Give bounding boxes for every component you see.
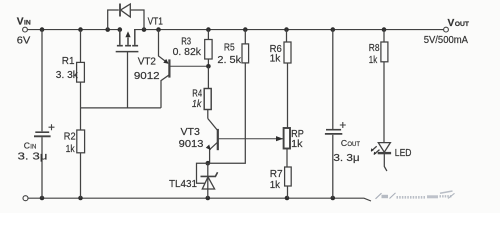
resistor R6	[284, 30, 291, 128]
resistor R3	[205, 30, 212, 67]
resistor R7	[285, 167, 292, 198]
svg-text:1k: 1k	[66, 144, 76, 155]
svg-text:R2: R2	[64, 132, 76, 143]
svg-text:1k: 1k	[192, 99, 202, 110]
svg-text:OUT: OUT	[347, 142, 360, 148]
transistor VT1 (MOSFET)	[116, 30, 139, 108]
node dot diode right	[142, 27, 147, 32]
wire bottom rail	[28, 198, 371, 201]
svg-text:VT3: VT3	[181, 127, 201, 138]
svg-text:VT2: VT2	[138, 57, 157, 68]
capacitor Cin	[34, 30, 55, 198]
node dot R3 top	[206, 27, 211, 32]
node dot R7 bottom	[285, 196, 290, 201]
capacitor Cout	[325, 30, 346, 198]
node dot VT1 drain	[118, 27, 123, 32]
svg-text:V: V	[17, 16, 24, 27]
svg-text:R5: R5	[224, 43, 235, 54]
svg-text:R1: R1	[62, 56, 75, 67]
svg-text:VT1: VT1	[148, 17, 164, 28]
svg-text:3. 3μ: 3. 3μ	[18, 152, 48, 163]
svg-text:5V/500mA: 5V/500mA	[424, 35, 468, 46]
potentiometer RP	[276, 128, 290, 167]
node dot Cout bottom	[331, 196, 336, 201]
node dot TL431 cathode	[206, 161, 211, 166]
resistor R2	[77, 108, 85, 198]
svg-text:1k: 1k	[270, 180, 281, 191]
svg-text:OUT: OUT	[455, 21, 470, 28]
svg-text:R7: R7	[270, 169, 283, 180]
transistor VT3 (9013)	[206, 119, 284, 164]
node dot VT2 emitter riser	[156, 27, 161, 32]
resistor R1	[77, 30, 85, 108]
label VIN	[17, 16, 31, 27]
resistor R4	[204, 66, 211, 118]
label CIN	[24, 141, 37, 151]
svg-text:3. 3k: 3. 3k	[56, 70, 79, 81]
node dot Cin top	[40, 27, 45, 32]
watermark	[376, 191, 455, 199]
svg-text:1k: 1k	[369, 55, 378, 66]
terminal VOUT	[444, 27, 449, 32]
terminal VIN	[23, 27, 28, 32]
label VOUT	[448, 18, 470, 29]
svg-text:IN: IN	[24, 19, 31, 26]
IC TL431	[197, 163, 218, 198]
node dot R5 top	[243, 27, 248, 32]
terminal ground left	[23, 196, 28, 201]
label COUT	[341, 138, 361, 148]
node dot Cin bottom	[40, 196, 45, 201]
LED	[371, 143, 391, 171]
node dot R8 top	[382, 27, 387, 32]
node dot R1 top	[78, 27, 83, 32]
svg-text:9012: 9012	[134, 71, 160, 82]
svg-text:9013: 9013	[179, 139, 204, 150]
svg-text:3. 3μ: 3. 3μ	[333, 153, 359, 164]
node dot diode left	[105, 27, 110, 32]
svg-text:C: C	[341, 138, 347, 148]
svg-text:0. 82k: 0. 82k	[173, 47, 202, 58]
svg-text:R4: R4	[192, 88, 202, 99]
resistor R8	[381, 30, 388, 143]
node dot R2 bottom	[78, 196, 83, 201]
wire top rail left segment	[28, 29, 123, 31]
wire diode loop	[108, 10, 144, 30]
node dot R6 top	[284, 27, 289, 32]
node dot TL431 anode	[206, 196, 211, 201]
resistor R5	[242, 30, 249, 63]
svg-text:2. 5k: 2. 5k	[217, 55, 242, 66]
svg-text:1k: 1k	[270, 54, 282, 65]
node dot R3/R4/VT2 base	[206, 64, 211, 69]
svg-text:R8: R8	[369, 43, 380, 54]
diode VD1	[120, 4, 130, 18]
svg-text:IN: IN	[30, 145, 36, 151]
transistor VT2 (9012)	[159, 30, 209, 108]
node dot Cout top	[331, 27, 336, 32]
svg-text:TL431: TL431	[169, 179, 197, 190]
wire top rail right segment	[134, 29, 443, 31]
svg-text:V: V	[448, 18, 455, 29]
svg-text:1k: 1k	[291, 139, 303, 150]
svg-text:C: C	[24, 141, 30, 151]
wire R5 branch	[208, 63, 246, 163]
svg-text:R3: R3	[181, 37, 191, 48]
svg-text:LED: LED	[395, 148, 412, 159]
svg-text:6V: 6V	[17, 36, 31, 47]
wire gate link	[81, 107, 161, 109]
